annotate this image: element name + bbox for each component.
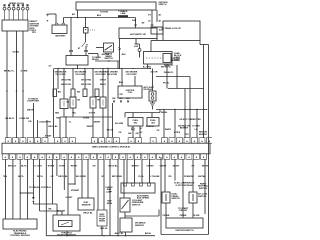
wire dist box to bus: [119, 39, 121, 69]
wires into ignition switch: [165, 203, 167, 218]
svg-text:BK BL/YL: BK BL/YL: [5, 118, 15, 120]
spark plug 5: [22, 4, 24, 6]
svg-text:W/ TRANS LOCK UP: W/ TRANS LOCK UP: [162, 27, 182, 30]
PCM body: [2, 143, 210, 154]
pickup resistor 2: [90, 97, 96, 108]
svg-text:DB/WT: DB/WT: [94, 122, 101, 124]
svg-text:LT GRN: LT GRN: [192, 125, 200, 127]
wire right 3: [192, 159, 194, 192]
tps stub: [67, 184, 69, 215]
right outer box edge: [151, 40, 163, 42]
pickup resistor 3: [100, 97, 106, 108]
svg-text:SWITCH: SWITCH: [104, 58, 113, 60]
stub wires injector: [132, 113, 134, 118]
svg-text:BLK: BLK: [97, 15, 102, 17]
dist sensor box: [78, 198, 94, 210]
svg-text:J2 BK/GY: J2 BK/GY: [145, 126, 155, 128]
wires right bus to pins: [163, 110, 165, 138]
wire 64: [63, 159, 65, 190]
svg-text:PK BL: PK BL: [163, 82, 170, 84]
fuse symbol: [138, 49, 141, 52]
bus to right: [88, 53, 98, 55]
ac low switch: [189, 192, 197, 203]
svg-text:BR/WH: BR/WH: [132, 166, 139, 168]
wires sensors to bus: [63, 109, 65, 118]
wire box to bus: [77, 65, 79, 69]
throttle position sensor: [53, 215, 80, 231]
svg-text:RELAY: RELAY: [92, 58, 99, 61]
wire 39: [39, 159, 41, 211]
spark plug 2: [8, 4, 10, 6]
ais wires: [126, 159, 128, 183]
svg-text:SBEC (ENGINE CONTROL MODULE): SBEC (ENGINE CONTROL MODULE): [92, 146, 130, 148]
wire 118: [117, 159, 119, 235]
svg-text:DG/BL: DG/BL: [13, 52, 20, 54]
svg-text:OR: OR: [135, 133, 139, 135]
svg-text:BK: BK: [119, 98, 123, 100]
wire from ignition box down: [77, 10, 79, 18]
splice bar right: [84, 50, 88, 51]
svg-text:LG: LG: [195, 129, 198, 131]
svg-text:DG GRN: DG GRN: [115, 123, 124, 125]
wire 52: [51, 159, 53, 204]
svg-text:DK BL/YL: DK BL/YL: [164, 65, 174, 67]
wire into relay box: [70, 52, 72, 56]
svg-text:DK BL: DK BL: [161, 112, 168, 114]
asd relay box: [118, 86, 142, 98]
battery bus wire: [64, 17, 136, 19]
relay 2 contact box: [71, 89, 75, 97]
svg-text:BL/YL: BL/YL: [18, 176, 25, 178]
right bus line: [156, 109, 208, 111]
wire coil-1 to PCM: [6, 31, 8, 138]
svg-text:SWITCH: SWITCH: [198, 196, 207, 198]
svg-text:8 WAY: 8 WAY: [45, 134, 52, 137]
wire 110: [109, 159, 111, 235]
right wire b: [176, 65, 178, 89]
relay wire f: [102, 69, 104, 98]
svg-text:BL/YL: BL/YL: [21, 166, 28, 168]
svg-text:BK/LT BL: BK/LT BL: [115, 233, 124, 235]
svg-text:GY/WT: GY/WT: [66, 197, 74, 199]
wire 82 88 to dist: [81, 159, 83, 198]
svg-text:OR/WT: OR/WT: [160, 166, 167, 168]
stub below dist box: [135, 39, 137, 45]
svg-text:PK BK: PK BK: [180, 215, 187, 217]
svg-text:SENSOR: SENSOR: [171, 60, 180, 62]
wire right 2: [182, 159, 184, 218]
svg-text:ST-RUN: ST-RUN: [100, 12, 108, 14]
spark plug 6: [26, 4, 28, 6]
svg-text:BK/ BL: BK/ BL: [145, 233, 152, 235]
fuse block feed wire: [150, 41, 152, 52]
svg-text:TAN: TAN: [56, 117, 61, 120]
svg-text:SENSOR: SENSOR: [135, 225, 144, 227]
trans lock box: [151, 27, 163, 34]
svg-text:DB GY/OR: DB GY/OR: [61, 84, 71, 86]
svg-text:OR GY/RD: OR GY/RD: [55, 74, 66, 76]
hline to tps: [32, 201, 34, 204]
svg-text:BK/L BL: BK/L BL: [100, 228, 108, 230]
brake switch: [104, 43, 114, 52]
svg-text:RD/YL: RD/YL: [37, 176, 44, 178]
wire bus to dist box: [135, 18, 137, 26]
svg-text:SENSOR: SENSOR: [82, 204, 91, 206]
bottom outer box: [161, 234, 209, 236]
coil component: [149, 91, 156, 101]
battery B+ symbol: [46, 14, 49, 16]
svg-text:SENS: SENS: [99, 221, 105, 223]
relay wire b: [63, 69, 65, 100]
wire coil-3 to PCM: [22, 31, 24, 138]
injector box 1: [128, 118, 143, 127]
battery: [52, 25, 67, 34]
svg-text:SWITCH: SWITCH: [159, 4, 167, 6]
wire 37: [37, 120, 39, 138]
AIS motor: [121, 183, 155, 193]
svg-text:DB OR: DB OR: [151, 72, 158, 74]
ground bus bottom: [46, 235, 155, 237]
battery feed wire: [49, 13, 57, 15]
wire radio branch: [33, 103, 35, 138]
svg-text:SWITCH: SWITCH: [172, 198, 181, 200]
svg-text:OR GY/RD: OR GY/RD: [81, 80, 92, 82]
svg-text:BK OR/RD: BK OR/RD: [76, 176, 86, 178]
svg-text:CONTROL MODULE: CONTROL MODULE: [10, 235, 30, 237]
spark plug 4: [17, 4, 19, 6]
fuse block outer box: [144, 52, 173, 65]
svg-text:YL/BL: YL/BL: [138, 176, 145, 178]
svg-text:LINK: LINK: [121, 13, 126, 15]
svg-text:BK: BK: [128, 133, 132, 135]
relay 1 resistor: [60, 99, 68, 109]
svg-text:BR/YL/WH: BR/YL/WH: [112, 176, 122, 178]
svg-text:WT/BK: WT/BK: [48, 166, 55, 168]
wires bus to pins: [59, 117, 61, 138]
PCM top pin row: [5, 138, 11, 144]
svg-text:IDLE SPEED: IDLE SPEED: [137, 198, 150, 200]
wire right 4: [204, 159, 206, 214]
svg-text:OR: OR: [119, 94, 123, 96]
svg-text:BK/WHT: BK/WHT: [180, 128, 189, 130]
coolant sensor ground stub: [101, 226, 103, 236]
right hline 88: [168, 88, 204, 90]
fuse block inner box: [163, 54, 171, 63]
svg-text:OR GY/RD: OR GY/RD: [95, 74, 106, 76]
svg-text:TO CRUISE CONTROL: TO CRUISE CONTROL: [29, 187, 52, 189]
long mid verticals: [107, 69, 109, 138]
right hline 76: [156, 76, 190, 78]
svg-text:A21: A21: [72, 13, 75, 16]
relay 3 contact box: [83, 89, 87, 97]
svg-text:OR GY/RD: OR GY/RD: [126, 74, 137, 76]
wire brake branch: [95, 60, 120, 62]
wire 97 103: [97, 159, 99, 210]
starter relay coil box: [85, 18, 87, 28]
relay wire d: [84, 69, 86, 90]
svg-text:DB/WT: DB/WT: [87, 126, 94, 128]
wire to coil component: [152, 69, 154, 92]
capacitor bars: [150, 102, 155, 104]
right vline 190: [189, 77, 191, 110]
fuse block lower wires: [147, 64, 149, 69]
relay wire c: [72, 69, 74, 90]
ignition switch feed box: [76, 2, 156, 10]
wire 68: [67, 159, 69, 184]
injector lower stubs: [132, 126, 134, 138]
svg-text:OR/WH: OR/WH: [147, 166, 154, 168]
svg-text:BL/L BK: BL/L BK: [57, 211, 66, 213]
PCM bottom pin row: [2, 154, 8, 160]
svg-text:BK: BK: [58, 92, 62, 94]
svg-text:A142 BK/PK: A142 BK/PK: [39, 120, 51, 123]
box above bus: [66, 56, 88, 66]
svg-text:IGNITION SWITCH: IGNITION SWITCH: [175, 230, 194, 232]
wire 124 pressure: [123, 159, 125, 198]
distance sensor ground stub: [125, 232, 127, 236]
svg-text:G5 NOT CONNECTED: G5 NOT CONNECTED: [179, 119, 201, 121]
svg-text:PK BK: PK BK: [193, 215, 200, 217]
svg-text:GY/BK: GY/BK: [21, 71, 28, 73]
injector box 2: [147, 118, 159, 127]
svg-text:BR/YL BL: BR/YL BL: [58, 176, 68, 178]
svg-text:BK: BK: [112, 98, 116, 100]
svg-text:BR/YL B: BR/YL B: [8, 166, 17, 168]
svg-text:CLUTCH W/ RELAY: CLUTCH W/ RELAY: [175, 184, 193, 187]
svg-text:RD/WT: RD/WT: [71, 166, 78, 168]
svg-text:GY/BK: GY/BK: [89, 113, 96, 115]
svg-text:SWITCH: SWITCH: [132, 204, 141, 206]
svg-text:LAMP: LAMP: [106, 190, 113, 193]
wire into brake switch: [96, 47, 104, 49]
wire 56: [56, 159, 58, 176]
svg-text:AUTOMATIC S/D: AUTOMATIC S/D: [130, 33, 146, 36]
svg-text:MT/MAT: MT/MAT: [71, 189, 80, 192]
DIS ignition coil pack: [2, 20, 28, 31]
sensor bus: [60, 116, 113, 118]
svg-text:DK BL/YL: DK BL/YL: [164, 72, 174, 74]
svg-text:OR GY/RD: OR GY/RD: [61, 80, 72, 82]
wire etc 4: [27, 159, 29, 219]
svg-text:BATTERY: BATTERY: [55, 35, 66, 38]
wire 46 long: [45, 159, 47, 235]
wire etc 2: [12, 159, 14, 219]
svg-text:DB/PK: DB/PK: [165, 129, 172, 131]
coolant temp sensor: [97, 210, 107, 226]
pressure switch: [120, 198, 130, 212]
wire down from feed: [124, 113, 126, 118]
svg-text:SWITCH: SWITCH: [199, 188, 208, 190]
connector dashes: [146, 57, 162, 59]
svg-text:BK: BK: [126, 98, 130, 100]
svg-text:DB/WT: DB/WT: [173, 166, 180, 168]
svg-text:WT/PK: WT/PK: [174, 132, 181, 134]
relay 1 coil box: [53, 89, 57, 97]
svg-text:RD: RD: [77, 92, 81, 94]
cruise branch: [20, 192, 21, 193]
svg-text:DB/OR: DB/OR: [27, 110, 34, 112]
distance sensor: [120, 218, 132, 232]
svg-text:30A: 30A: [132, 19, 136, 22]
tps ground stub: [66, 231, 68, 236]
wire arrow down: [152, 106, 154, 110]
ignition switch: [166, 218, 203, 228]
relay 4 contact box: [95, 89, 99, 97]
svg-text:LT GRN: LT GRN: [34, 166, 42, 168]
svg-text:BLK: BLK: [119, 82, 124, 84]
spark plug 3: [13, 4, 15, 6]
transaxle control module: [3, 219, 37, 229]
right option box: [163, 21, 200, 41]
svg-text:BK/LT BL: BK/LT BL: [83, 212, 93, 214]
wire 75 junction: [74, 159, 76, 184]
svg-text:SENS: SENS: [107, 203, 113, 205]
pickup resistor 1: [70, 97, 76, 108]
svg-text:GY/BK: GY/BK: [83, 118, 90, 120]
wire coil-2 to PCM: [16, 31, 18, 138]
splice on coil wires: [6, 90, 8, 92]
wire arrow a: [32, 159, 34, 197]
svg-text:OR GY/RD: OR GY/RD: [107, 74, 118, 76]
relay wire a: [57, 69, 59, 90]
wire etc 3: [19, 159, 21, 219]
svg-text:RD/WHT: RD/WHT: [199, 134, 208, 136]
svg-text:OR GY/RD: OR GY/RD: [75, 74, 86, 76]
battery positive wire to bus: [63, 18, 65, 24]
wire right down to pin: [203, 45, 205, 138]
horizontal feed line: [125, 112, 160, 114]
splice bar left: [69, 50, 73, 51]
wire right 1: [164, 159, 166, 192]
svg-text:BK: BK: [48, 209, 52, 211]
svg-text:BK OR: BK OR: [107, 129, 114, 131]
relay supply bus: [54, 68, 151, 70]
wire to ac clutch: [174, 159, 176, 180]
wire pair from ignition box: [151, 10, 153, 25]
hline to tps 2: [40, 210, 63, 212]
starter relay switch: [85, 33, 87, 42]
relay wire e: [92, 69, 94, 98]
svg-text:LT BL/BK: LT BL/BK: [151, 176, 161, 178]
left sensor wires: [53, 69, 55, 138]
power distribution box: [119, 28, 157, 39]
wire etc 1: [5, 159, 7, 219]
svg-text:BK BL/YL: BK BL/YL: [4, 71, 15, 73]
svg-text:COMPUTER: COMPUTER: [27, 101, 39, 103]
dual pressure switch: [162, 192, 170, 203]
down arrows: [113, 101, 115, 104]
connector marks: [118, 48, 121, 49]
svg-text:GY/BK DB: GY/BK DB: [19, 118, 29, 120]
svg-text:DB GY/OR: DB GY/OR: [81, 84, 91, 86]
spark plug 1: [3, 4, 5, 6]
wire branch: [70, 18, 72, 51]
wire pressure to distance: [124, 212, 126, 218]
svg-text:CIRCUIT: CIRCUIT: [179, 210, 188, 212]
svg-text:TAN: TAN: [55, 112, 60, 115]
